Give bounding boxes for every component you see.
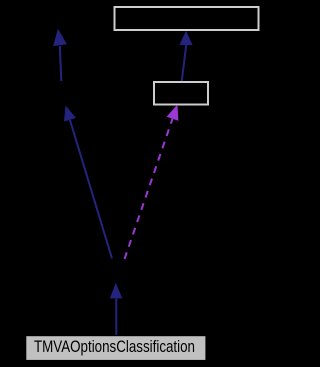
wire: usage arrow E (dashed purple diagonal) <box>125 119 173 259</box>
wire: inheritance arrow C (vertical from bottom box, solid blue) <box>115 298 117 335</box>
arrowhead B <box>64 105 76 121</box>
arrowhead E <box>167 105 179 121</box>
arrowhead D <box>179 31 192 45</box>
node box top-right (empty, gray border) <box>115 7 259 30</box>
wire: inheritance arrow B (long diagonal, solid blue) <box>70 120 112 259</box>
wire: inheritance arrow A (upper-left, solid blue) <box>60 46 62 81</box>
node box middle-right (empty, gray border) <box>154 82 208 105</box>
arrowhead A <box>53 29 67 46</box>
node box TMVAOptionsClassification (gray filled) <box>26 336 205 360</box>
wire: inheritance arrow D (middle box to top box, solid blue) <box>182 45 186 81</box>
svg-text:TMVAOptionsClassification: TMVAOptionsClassification <box>34 338 195 356</box>
arrowhead C <box>110 283 122 299</box>
